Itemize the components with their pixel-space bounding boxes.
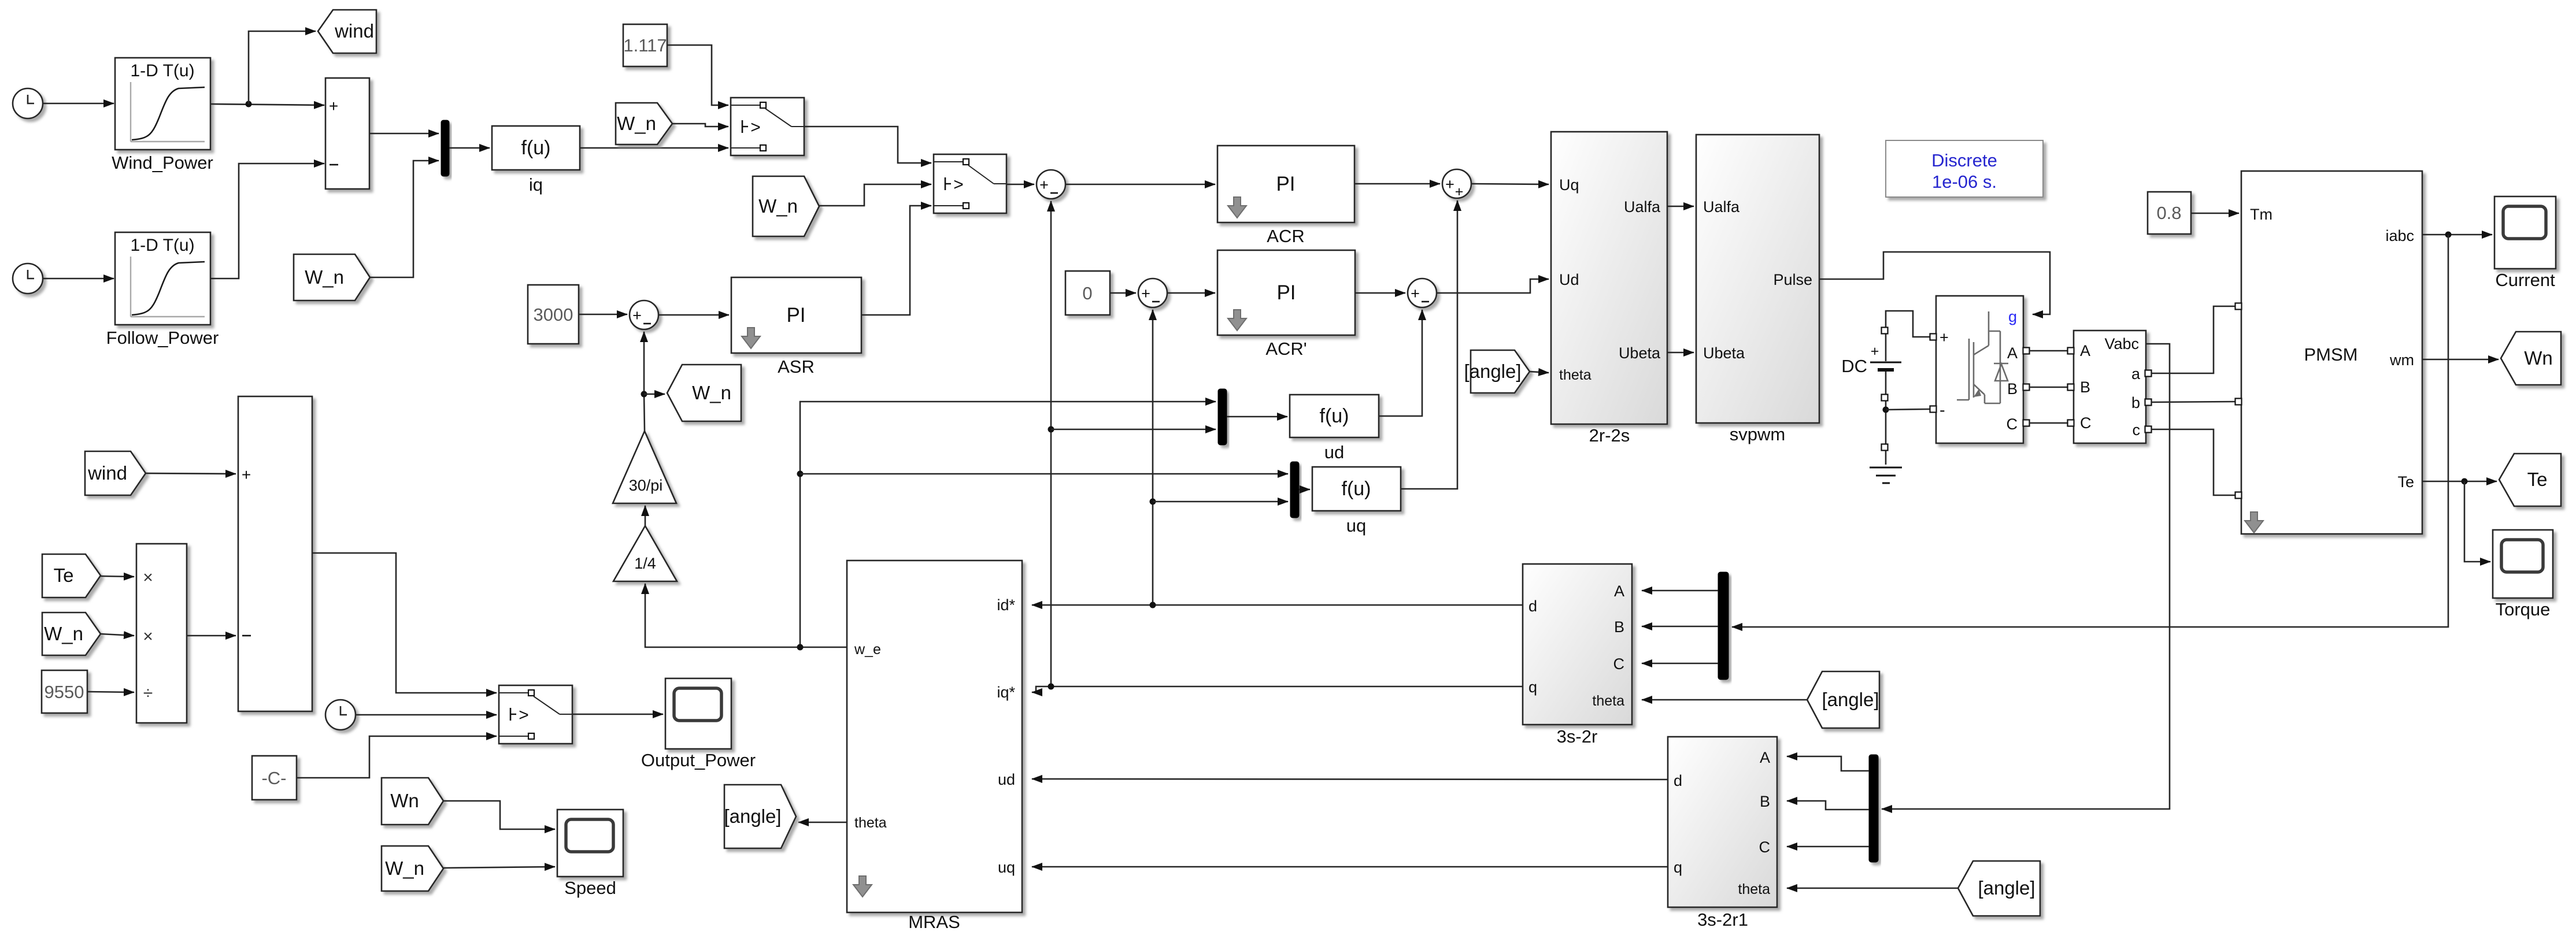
svg-text:Ualfa: Ualfa <box>1703 198 1740 216</box>
wire angle to 2r-2s theta <box>1530 372 1549 373</box>
constant -C- <box>252 756 297 800</box>
wire Mux_ud to f(u) ud <box>1227 416 1287 418</box>
junction node id <box>1150 602 1156 608</box>
svg-text:A: A <box>2007 344 2018 362</box>
scope Speed <box>557 810 623 877</box>
wire iabc feedback to 3s-2r demux <box>1732 235 2448 627</box>
wire 9550 to Product <box>87 692 134 692</box>
svg-text:Output_Power: Output_Power <box>641 750 756 770</box>
wire Vabc a to PMSM a <box>2151 306 2235 373</box>
svg-text:W_n: W_n <box>44 623 83 644</box>
wire ASR to Switch2 input3 <box>861 206 931 315</box>
demux Demux2 <box>1869 755 1878 862</box>
sum block Sum1 <box>1037 170 1065 199</box>
svg-text:iabc: iabc <box>2385 227 2414 244</box>
switch Switch2 <box>934 154 1006 213</box>
wire DC minus to inverter <box>1886 409 1930 410</box>
wire wm to Wn tag <box>2422 359 2499 361</box>
machine block PMSM <box>2241 171 2422 534</box>
wire wind to BigSum plus <box>146 473 236 474</box>
clock source Clock2 <box>13 263 43 294</box>
junction node rpm <box>641 391 647 398</box>
svg-text:9550: 9550 <box>45 682 84 702</box>
inverter port squares <box>1930 334 1937 340</box>
svg-text:uq: uq <box>998 859 1015 876</box>
svg-text:1.117: 1.117 <box>623 35 667 55</box>
svg-text:+: + <box>1445 176 1454 193</box>
wire w_e to Mux_uq input1 <box>800 473 1288 475</box>
From tag W_n input <box>42 613 101 655</box>
measurement block Vabc <box>2074 331 2146 443</box>
svg-text:PMSM: PMSM <box>2304 344 2358 365</box>
svg-text:ACR: ACR <box>1267 226 1304 246</box>
gain 30/pi <box>613 431 676 503</box>
svg-text:theta: theta <box>854 815 887 831</box>
svg-text:PI: PI <box>1276 173 1295 195</box>
wire iq to Switch1 input3 <box>580 147 728 149</box>
svg-text:1-D T(u): 1-D T(u) <box>130 236 194 255</box>
clock source Clock1 <box>13 88 43 118</box>
junction node iq branch <box>1048 426 1054 433</box>
svg-text:Wind_Power: Wind_Power <box>112 153 213 173</box>
wire Sum2 to 2r-2s Uq <box>1471 184 1549 184</box>
function block iq f(u) <box>492 126 580 170</box>
From tag angle to 3s-2r <box>1807 671 1879 728</box>
constant 1.117 <box>623 24 667 66</box>
wire demux2 to 3s-2r1 B <box>1787 801 1869 810</box>
junction node id branch <box>1150 499 1156 505</box>
wire Switch3 to Output_Power scope <box>572 714 663 715</box>
svg-text:Discrete: Discrete <box>1931 150 1997 170</box>
wire W_n to Product <box>101 634 134 636</box>
svg-text:uq: uq <box>1346 515 1366 536</box>
svg-text:A: A <box>2080 342 2090 359</box>
svg-text:q: q <box>1674 859 1682 876</box>
wire Switch1 to Switch2 input1 <box>804 127 931 163</box>
wire angle to 3s-2r1 theta <box>1787 888 1958 889</box>
svg-text:W_n: W_n <box>692 382 731 403</box>
wire Vabc c to PMSM c <box>2151 429 2235 495</box>
wire 3000 to Sum_ASR <box>579 314 627 316</box>
svg-text:+: + <box>1411 285 1420 302</box>
Goto tag wind <box>318 10 376 53</box>
wire ud to Sum4 <box>1379 310 1422 416</box>
wire Te to Product <box>101 576 134 577</box>
svg-text:>: > <box>750 118 761 137</box>
svg-text:Te: Te <box>54 565 74 586</box>
svg-text:Wn: Wn <box>390 790 419 811</box>
svg-text:Speed: Speed <box>564 878 616 898</box>
wire id* feedback up to Sum3 <box>1152 310 1154 605</box>
wire Sum4 to 2r-2s Ud <box>1437 279 1549 293</box>
wire Wind_Power to Sum plus <box>210 104 324 105</box>
wire Clock2 to Follow_Power <box>43 278 114 280</box>
wire W_n to Switch2 input2 <box>819 184 931 206</box>
svg-text:+: + <box>329 97 338 115</box>
wire Clock3 to Switch3 input2 <box>356 714 497 716</box>
PMSM port squares <box>2236 303 2242 310</box>
wire Mux1 to f(u) iq <box>449 147 490 149</box>
From tag W_n to Switch2 <box>753 176 819 236</box>
svg-text:wind: wind <box>87 462 127 484</box>
svg-text:ASR: ASR <box>778 357 815 377</box>
mux Mux_ud <box>1218 389 1227 445</box>
svg-text:Follow_Power: Follow_Power <box>106 328 219 348</box>
mux Mux1 <box>441 120 449 176</box>
svg-text:[angle]: [angle] <box>1464 361 1521 382</box>
svg-text:Current: Current <box>2495 270 2555 290</box>
wire iabc to Current scope <box>2422 234 2492 236</box>
wire BigSum to Switch3 input1 <box>312 553 497 693</box>
subsystem ACR' PI <box>1217 250 1355 335</box>
svg-text:DC: DC <box>1841 356 1867 376</box>
wire 3s-2r1 d to MRAS ud <box>1032 779 1668 780</box>
function block ud f(u) <box>1290 395 1379 437</box>
junction node w_e <box>797 644 804 651</box>
svg-text:theta: theta <box>1559 367 1592 383</box>
scope Current <box>2494 196 2556 269</box>
sum block Sum_ASR <box>630 300 658 329</box>
svg-text:wm: wm <box>2389 351 2414 369</box>
lookup table Wind_Power <box>115 58 210 150</box>
wire 1.117 to Switch1 input1 <box>667 45 728 105</box>
svg-text:MRAS: MRAS <box>908 912 960 932</box>
wire iq* feedback up to Sum1 <box>1050 201 1052 686</box>
svg-text:+: + <box>242 466 251 484</box>
svg-text:Te: Te <box>2527 469 2548 490</box>
svg-text:ud: ud <box>998 771 1015 788</box>
lookup table Follow_Power <box>115 232 210 325</box>
junction node DC minus <box>1883 407 1889 413</box>
svg-text:theta: theta <box>1592 693 1624 709</box>
sum block Sum2 <box>1442 169 1471 198</box>
svg-text:C: C <box>1613 655 1625 673</box>
sum block Sum_wind <box>325 78 369 189</box>
svg-text:wind: wind <box>334 20 374 42</box>
svg-text:3000: 3000 <box>534 305 573 325</box>
subsystem 3s-2r1 <box>1668 737 1777 907</box>
wire 3s-2r1 q to MRAS uq <box>1032 866 1668 868</box>
wire iq to Mux_ud input2 <box>1051 429 1216 430</box>
wire demux to 3s-2r C <box>1642 663 1718 665</box>
svg-text:+: + <box>1455 184 1464 200</box>
svg-text:Tm: Tm <box>2250 206 2272 223</box>
svg-text:>: > <box>519 706 529 725</box>
svg-text:svpwm: svpwm <box>1730 424 1785 444</box>
annotation Discrete sample time <box>1886 140 2043 197</box>
junction node wind branch <box>246 101 252 107</box>
svg-text:B: B <box>2080 378 2090 396</box>
junction node iq <box>1048 684 1054 690</box>
wire angle to 3s-2r theta <box>1642 699 1807 701</box>
wire Clock1 to Wind_Power <box>43 103 114 105</box>
svg-text:B: B <box>1760 793 1770 810</box>
wire rpm to W_n Goto <box>644 394 665 395</box>
IGBT symbol <box>1957 311 2008 403</box>
gain 1/4 <box>613 526 677 581</box>
sum block Sum3 <box>1138 279 1167 307</box>
svg-text:+: + <box>1039 176 1049 194</box>
junction node Te <box>2462 478 2468 485</box>
function block uq f(u) <box>1312 467 1401 511</box>
svg-text:+: + <box>1940 329 1949 346</box>
svg-text:1e-06 s.: 1e-06 s. <box>1932 172 1997 192</box>
switch Switch1 <box>731 98 804 155</box>
svg-text:w_e: w_e <box>854 641 881 658</box>
wire branch to wind Goto <box>249 31 316 104</box>
svg-text:PI: PI <box>1276 281 1296 304</box>
constant 0 <box>1065 271 1110 315</box>
svg-text:[angle]: [angle] <box>1978 877 2035 899</box>
svg-text:3s-2r: 3s-2r <box>1557 726 1598 747</box>
svg-text:f(u): f(u) <box>521 137 551 159</box>
constant 3000 <box>528 285 579 344</box>
junction node iabc <box>2445 232 2452 238</box>
port square ground <box>1882 444 1888 451</box>
svg-text:f(u): f(u) <box>1320 405 1349 427</box>
From tag wind <box>85 451 146 495</box>
constant 0.8 <box>2148 192 2191 234</box>
svg-text:c: c <box>2133 421 2141 439</box>
From tag angle to 2r-2s <box>1471 350 1530 393</box>
svg-text:theta: theta <box>1738 881 1770 897</box>
svg-text:30/pi: 30/pi <box>629 477 663 494</box>
svg-text:a: a <box>2131 365 2141 383</box>
wire DC minus <box>1885 372 1887 465</box>
svg-text:iq: iq <box>529 175 543 195</box>
scope Torque <box>2493 530 2553 598</box>
subsystem 3s-2r <box>1523 564 1632 725</box>
svg-text:A: A <box>1614 582 1624 600</box>
sum block Sum4 <box>1408 279 1437 307</box>
wire Sum1 to ACR <box>1065 184 1215 185</box>
ground symbol <box>1870 467 1902 483</box>
sum block BigSum <box>238 396 312 711</box>
switch Switch3 <box>499 685 572 744</box>
port square DC minus <box>1882 395 1888 401</box>
svg-text:B: B <box>2007 380 2018 398</box>
svg-text:>: > <box>953 175 964 194</box>
svg-text:ACR': ACR' <box>1265 339 1306 359</box>
wire uq to Sum2 <box>1401 201 1457 489</box>
svg-text:3s-2r1: 3s-2r1 <box>1697 910 1748 930</box>
port square DC plus <box>1882 328 1888 334</box>
mux Mux_uq <box>1290 462 1299 518</box>
product block Product <box>136 544 187 723</box>
svg-text:id*: id* <box>997 596 1015 614</box>
subsystem svpwm <box>1696 135 1819 423</box>
wire w_e to Mux_ud input1 <box>800 402 1216 647</box>
svg-text:1-D T(u): 1-D T(u) <box>130 61 194 80</box>
wire id to Mux_uq input2 <box>1153 501 1288 503</box>
svg-text:C: C <box>1759 838 1771 856</box>
svg-text:Wn: Wn <box>2524 347 2553 369</box>
svg-text:0: 0 <box>1082 283 1092 303</box>
svg-text:÷: ÷ <box>143 684 153 703</box>
svg-text:Ubeta: Ubeta <box>1703 344 1745 362</box>
Goto tag W_n rpm <box>667 365 741 421</box>
svg-text:×: × <box>143 627 153 646</box>
svg-text:Ud: Ud <box>1559 271 1579 288</box>
svg-text:Torque: Torque <box>2496 599 2551 619</box>
From tag angle to 3s-2r1 <box>1958 861 2040 916</box>
svg-text:d: d <box>1674 772 1682 789</box>
subsystem ASR PI <box>731 277 861 353</box>
svg-text:×: × <box>143 568 153 587</box>
wire Follow_Power to Sum minus <box>210 164 324 279</box>
scope Output_Power <box>665 678 731 749</box>
svg-text:f(u): f(u) <box>1342 478 1371 500</box>
demux Demux1 <box>1718 572 1729 680</box>
svg-text:+: + <box>632 307 642 324</box>
Goto tag angle <box>724 785 796 848</box>
From tag W_n to Mux1 <box>294 254 370 300</box>
wire Te to Torque scope <box>2464 481 2490 562</box>
Goto tag Te <box>2499 454 2561 506</box>
svg-text:Pulse: Pulse <box>1773 271 1812 288</box>
wire MRAS w_e to gain 1/4 <box>645 584 847 647</box>
wire demux to 3s-2r A <box>1642 590 1718 592</box>
wire Vabc b to PMSM b <box>2151 402 2235 402</box>
svg-text:0.8: 0.8 <box>2156 203 2181 223</box>
wire Ubeta <box>1667 352 1694 354</box>
svg-text:[angle]: [angle] <box>724 806 781 827</box>
svg-text:iq*: iq* <box>997 684 1015 701</box>
svg-text:b: b <box>2131 394 2140 411</box>
From tag Te input <box>42 554 101 597</box>
svg-text:C: C <box>2007 415 2018 433</box>
wire Vabc vector to 3s-2r1 demux <box>1882 344 2170 809</box>
Goto tag Wn <box>2501 332 2561 385</box>
wire demux to 3s-2r B <box>1642 626 1718 628</box>
svg-text:q: q <box>1528 678 1537 696</box>
wire Ualfa <box>1667 206 1694 207</box>
wire ACR2 to Sum4 <box>1355 292 1405 294</box>
wire inverter B to Vabc B <box>2029 387 2068 388</box>
wire Te to Te tag <box>2422 481 2497 483</box>
svg-text:d: d <box>1528 597 1537 615</box>
svg-text:Vabc: Vabc <box>2104 335 2139 352</box>
svg-text:W_n: W_n <box>385 858 424 879</box>
wire W_n to Speed input2 <box>443 867 555 868</box>
svg-text:A: A <box>1760 749 1770 766</box>
wire W_n to Switch1 input2 <box>672 124 728 127</box>
svg-text:Te: Te <box>2397 473 2414 491</box>
wire MRAS theta to angle Goto <box>798 822 847 823</box>
From tag W_n to Switch1 <box>616 103 672 144</box>
wire Switch2 to Sum1 <box>1006 184 1034 185</box>
wire 30/pi to Sum_ASR <box>644 332 645 431</box>
svg-text:1/4: 1/4 <box>634 555 656 572</box>
wire inverter A to Vabc A <box>2029 350 2068 352</box>
svg-text:g: g <box>2008 308 2017 325</box>
wire inverter C to Vabc C <box>2029 422 2068 424</box>
clock source Clock3 <box>325 700 356 730</box>
constant 9550 <box>42 670 87 713</box>
wire 3s-2r q to MRAS iq* <box>1032 686 1523 692</box>
subsystem ACR PI <box>1217 146 1354 222</box>
wire 3s-2r d to MRAS id* <box>1032 604 1523 606</box>
svg-text:Uq: Uq <box>1559 176 1579 194</box>
svg-text:2r-2s: 2r-2s <box>1589 425 1630 446</box>
wire -C- to Switch3 input3 <box>297 736 497 778</box>
svg-text:W_n: W_n <box>305 266 344 288</box>
wire W_n to Mux1 input2 <box>370 161 439 277</box>
inverter bridge block <box>1936 296 2023 443</box>
svg-text:B: B <box>1614 618 1624 636</box>
junction node w_e branch2 <box>797 471 804 477</box>
wire demux2 to 3s-2r1 A <box>1787 756 1869 771</box>
wire ACR to Sum2 <box>1354 183 1440 185</box>
svg-text:W_n: W_n <box>617 113 656 134</box>
svg-text:[angle]: [angle] <box>1822 689 1879 710</box>
svg-text:+: + <box>1141 285 1150 302</box>
wire Sum_wind to Mux1 <box>369 133 439 135</box>
svg-text:-: - <box>1940 401 1945 420</box>
wire Mux_uq to f(u) uq <box>1299 489 1310 491</box>
wire Pulse to inverter gate <box>1819 252 2050 314</box>
wire Product to BigSum minus <box>187 635 236 637</box>
svg-text:Ualfa: Ualfa <box>1624 198 1661 216</box>
svg-text:W_n: W_n <box>758 195 798 217</box>
svg-text:Ubeta: Ubeta <box>1619 344 1661 362</box>
wire demux2 to 3s-2r1 C <box>1787 846 1869 848</box>
wire 1/4 to 30/pi <box>645 506 646 526</box>
subsystem MRAS <box>847 561 1022 912</box>
wire Wn to Speed input1 <box>443 801 555 829</box>
subsystem 2r-2s <box>1551 132 1667 424</box>
wire Sum_ASR to ASR <box>658 314 729 316</box>
From tag Wn to Speed <box>382 778 443 825</box>
From tag W_n to Speed <box>382 846 443 891</box>
wire 0.8 to PMSM Tm <box>2191 213 2239 214</box>
wire DC plus to inverter <box>1886 311 1930 361</box>
svg-text:PI: PI <box>786 304 805 326</box>
wire 0 to Sum3 <box>1110 292 1136 294</box>
wire Sum3 to ACR2 <box>1167 292 1215 294</box>
svg-text:-C-: -C- <box>261 768 286 788</box>
svg-text:C: C <box>2080 414 2092 432</box>
Vabc port squares <box>2068 348 2074 354</box>
svg-text:+: + <box>1871 343 1879 359</box>
svg-text:ud: ud <box>1324 442 1344 462</box>
